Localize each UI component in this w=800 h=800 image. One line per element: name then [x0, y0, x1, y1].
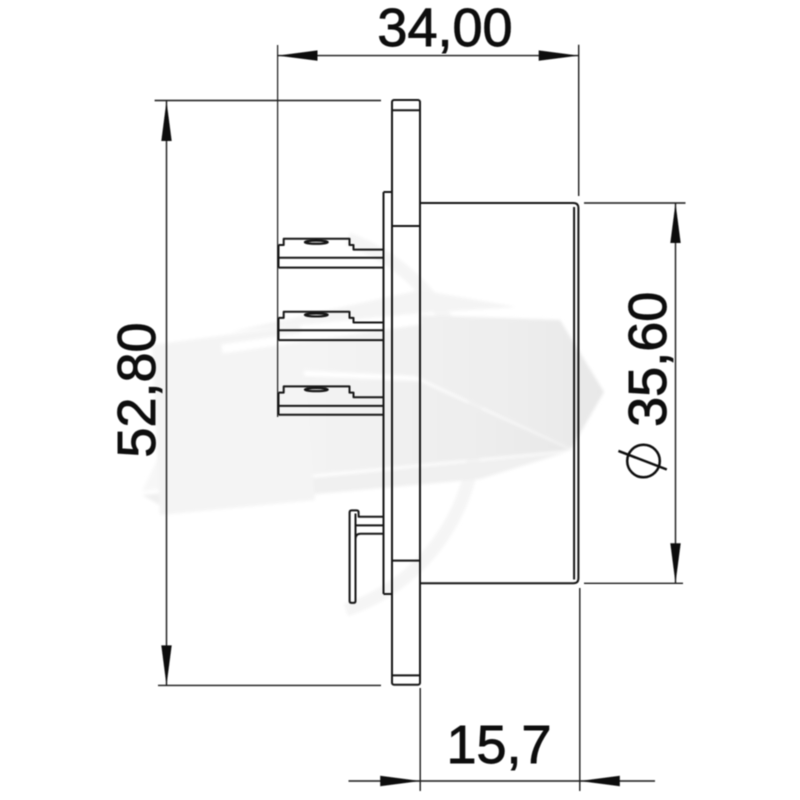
dimension diameter 35,60 top extension line — [584, 202, 686, 204]
dimension 34,00 left extension line — [277, 45, 279, 417]
contact pin 1 hole — [305, 241, 328, 244]
dimension 15,7 dimension line — [349, 780, 656, 782]
dimension diameter 35,60 bottom arrowhead — [670, 543, 680, 583]
diameter symbol slash — [618, 451, 666, 470]
watermark logo flash top wing — [230, 290, 516, 332]
dimension 52,80 top extension line — [155, 100, 381, 102]
watermark logo flash tail swoosh — [142, 452, 567, 508]
dimension 52,80 top arrowhead — [161, 101, 171, 141]
dimension 52,80 bottom arrowhead — [161, 645, 171, 685]
watermark logo flash body wedge — [142, 372, 571, 491]
dimension diameter 35,60 dimension line — [675, 203, 677, 583]
watermark logo beak wash — [152, 325, 315, 515]
contact pin 1 blade outline — [279, 239, 384, 268]
dimension 34,00 dimension line — [278, 55, 579, 57]
dimension 15,7 right extension line — [579, 588, 581, 791]
flange lower groove line — [392, 560, 420, 562]
contact pin 2 blade outline — [279, 312, 384, 340]
watermark logo beak white slash — [222, 320, 420, 349]
dimension diameter 35,60 bottom extension line — [584, 582, 683, 584]
mounting flange plate outline — [392, 100, 420, 685]
dimension 15,7 right arrowhead — [580, 776, 620, 786]
dimension 52,80 dimension line — [166, 101, 168, 685]
svg-text:15,7: 15,7 — [446, 715, 551, 775]
dimension 15,7 left arrowhead — [380, 776, 420, 786]
dimension 15,7 left extension line — [419, 688, 421, 791]
svg-text:52,80: 52,80 — [107, 322, 167, 457]
contact pin 3 blade outline — [279, 386, 384, 414]
svg-text:35,60: 35,60 — [618, 292, 678, 427]
contact pin 3 hole — [305, 388, 328, 391]
insert rear strip — [384, 192, 393, 594]
cylindrical housing body outline — [420, 203, 578, 583]
flange top cap line — [392, 109, 420, 111]
svg-text:34,00: 34,00 — [377, 0, 512, 58]
dimension diameter 35,60 top arrowhead — [670, 203, 680, 243]
dimension 34,00 right arrowhead — [539, 50, 579, 60]
watermark logo flash upper mass — [171, 315, 604, 449]
contact pin 2 hole — [305, 313, 328, 316]
PE solder bracket hook and leg — [350, 510, 384, 603]
housing rim chamfer line — [573, 207, 575, 580]
diameter symbol circle — [627, 445, 660, 478]
watermark logo ellipse ring arc — [346, 239, 476, 610]
dimension 52,80 bottom extension line — [158, 684, 381, 686]
flange upper groove line — [392, 225, 420, 227]
flange bottom cap line — [392, 674, 420, 676]
dimension 34,00 left arrowhead — [278, 50, 318, 60]
dimension 34,00 right extension line — [578, 45, 580, 196]
